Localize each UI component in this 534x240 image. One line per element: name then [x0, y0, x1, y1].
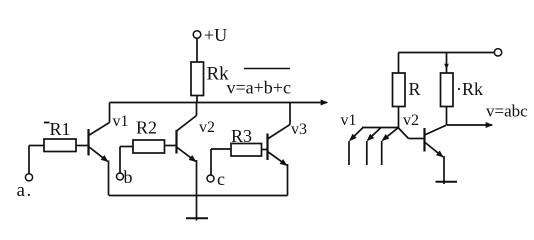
svg-text:·Rk: ·Rk [456, 79, 483, 99]
svg-text:R2: R2 [136, 118, 157, 138]
svg-text:.: . [27, 180, 32, 201]
svg-text:c: c [217, 169, 225, 189]
svg-text:a: a [17, 180, 26, 201]
svg-text:R3: R3 [231, 126, 252, 146]
svg-text:R: R [409, 79, 421, 99]
svg-text:+U: +U [204, 25, 227, 45]
svg-text:b: b [124, 167, 133, 187]
svg-text:v2: v2 [199, 119, 215, 136]
svg-text:v=a+b+c: v=a+b+c [227, 78, 291, 98]
svg-text:v=abc: v=abc [486, 102, 528, 121]
svg-text:v1: v1 [341, 112, 357, 129]
svg-text:v1: v1 [113, 113, 129, 130]
svg-text:v3: v3 [291, 121, 307, 138]
svg-text:R1: R1 [50, 119, 71, 139]
svg-text:v2: v2 [403, 112, 419, 129]
